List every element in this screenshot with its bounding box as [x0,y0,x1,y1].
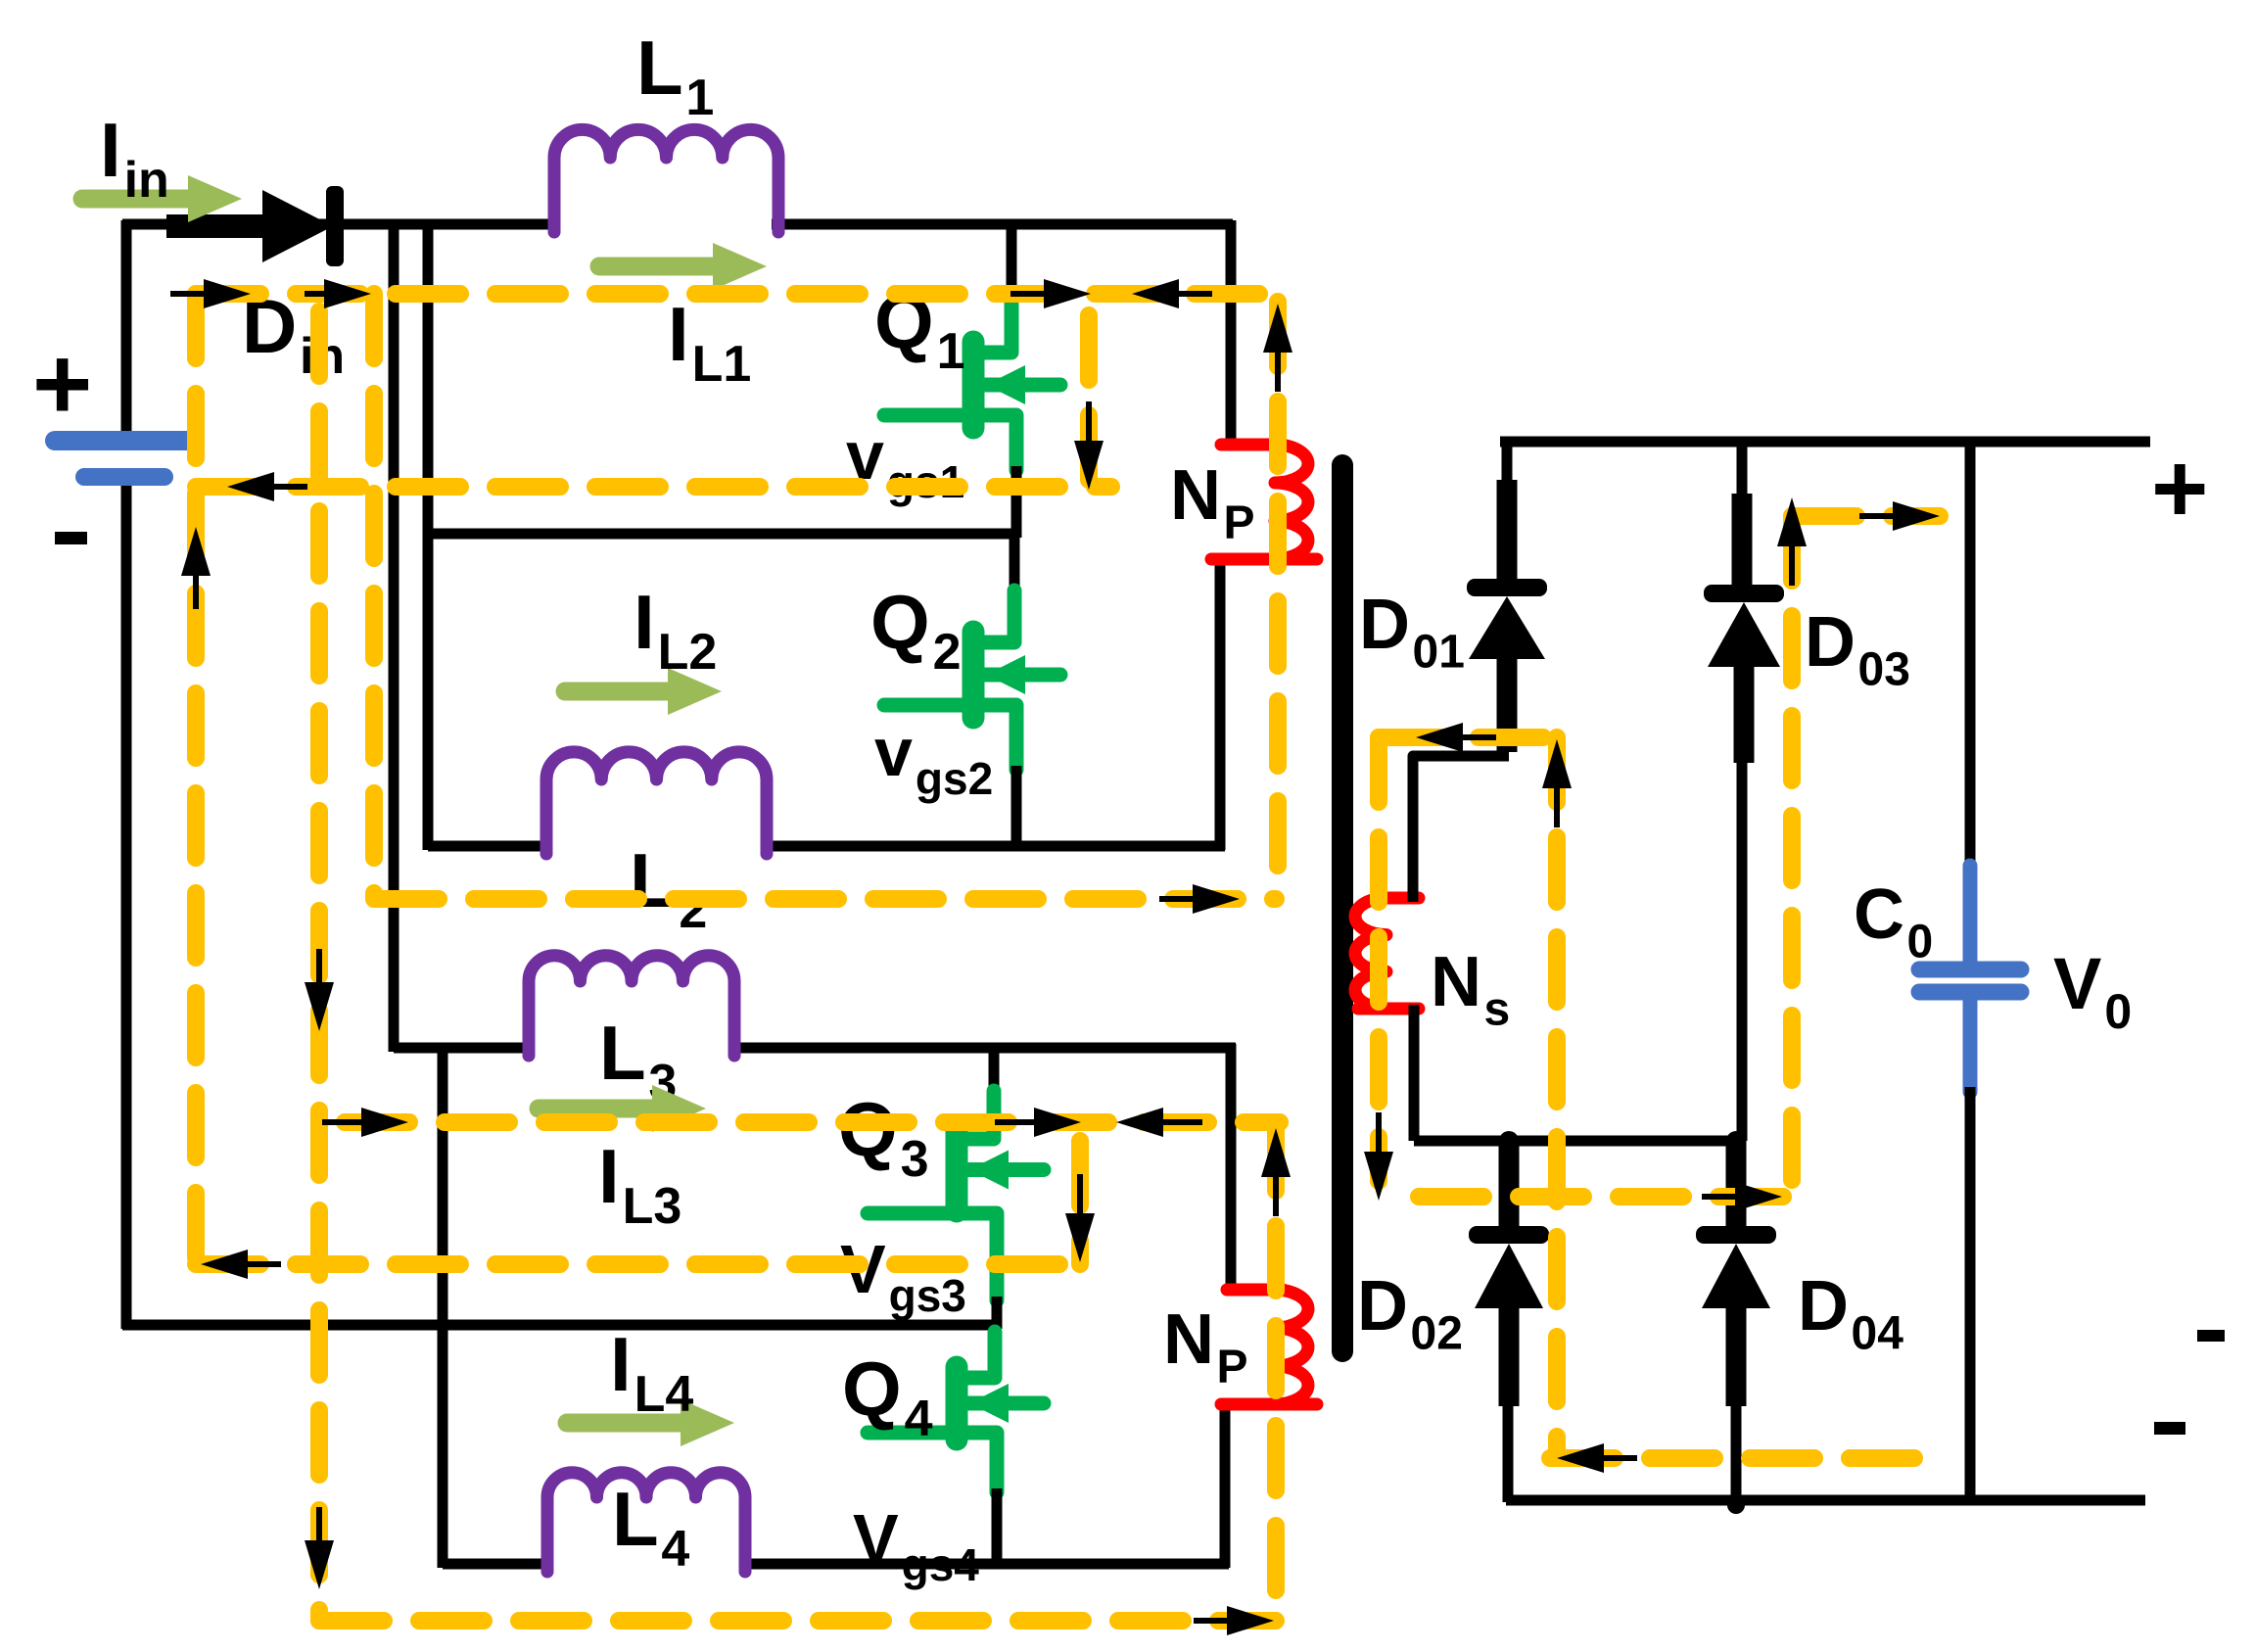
svg-text:L2: L2 [658,624,718,681]
winding Ns bottom lead [1358,1003,1419,1015]
wire battery negative vertical [121,480,132,1329]
winding Ns top lead [1386,892,1419,905]
inductor L3 [529,956,734,1056]
diode Din anode wire [166,214,270,238]
svg-text:L1: L1 [692,336,752,393]
svg-text:N: N [1163,1300,1214,1379]
wire NP1 top vertical [1226,220,1237,447]
svg-text:I: I [634,579,655,665]
diode D01 anode wire [1497,657,1518,752]
diode D03 anode wire [1734,665,1755,763]
svg-text:I: I [610,1321,632,1407]
svg-text:D: D [1805,603,1856,682]
label output minus lower [2154,1422,2185,1435]
svg-text:Q: Q [842,1345,902,1432]
transistor Q2 drain wire [1010,530,1020,595]
arrow lowerH b [1034,1108,1081,1137]
flow path left vertical x326 [310,311,328,1621]
arrow sec D01 left [1416,723,1463,752]
flow path lower H return [196,1255,1087,1273]
winding NP2 [1275,1290,1308,1404]
arrow sec top right [1893,501,1940,531]
label battery minus [55,532,87,544]
flow path H return upper [196,478,1111,496]
flow path NP2 vertical [1267,1126,1285,1621]
svg-text:C: C [1854,875,1904,954]
svg-text:1: 1 [685,70,714,126]
svg-text:N: N [1431,943,1481,1021]
arrow sec top up [1777,497,1807,546]
svg-text:V: V [853,1500,899,1577]
arrow IL3 [539,1100,658,1118]
svg-text:P: P [1224,496,1255,548]
svg-text:4: 4 [905,1391,933,1447]
svg-text:V: V [2053,943,2101,1024]
arrow lowerRet left [201,1250,248,1279]
svg-text:L: L [599,1010,646,1096]
arrow L2loop right [1193,884,1240,914]
winding Ns [1355,898,1386,1009]
wire lower cell top rail [394,1043,531,1054]
transistor Q2 source wire [1011,766,1022,850]
svg-text:L3: L3 [623,1178,682,1235]
svg-text:gs4: gs4 [902,1539,980,1590]
svg-text:gs2: gs2 [916,753,993,804]
diode Din [262,190,333,262]
flow path NP1 vertical [1269,302,1287,899]
svg-text:I: I [668,291,689,377]
wire battery positive vertical [121,220,132,439]
winding NP1 bottom lead [1211,553,1317,566]
svg-text:+: + [2151,434,2208,543]
arrow Hret left [227,472,274,501]
arrow Q3 down [1065,1213,1095,1262]
svg-text:s: s [1484,983,1511,1035]
diode D04 cathode wire [1726,1141,1747,1230]
arrow sec D01D02 up [1542,739,1572,788]
battery V (blue plates) [55,431,189,450]
svg-text:L: L [636,24,683,111]
winding NP2 bottom lead [1221,1398,1317,1411]
wire Ns top vertical [1408,894,1419,902]
wire L2 row [428,841,550,852]
flow path left vertical x200 [187,294,205,1264]
svg-text:02: 02 [1411,1307,1463,1359]
winding NP1 [1275,445,1308,559]
diode D02 cathode wire [1499,1141,1520,1230]
wire NP2 top vertical [1226,1044,1237,1293]
arrow Iin [82,190,194,209]
arrow V326 down b [305,1540,334,1589]
wire output bottom rail [1506,1495,2145,1506]
svg-text:0: 0 [2104,984,2132,1039]
svg-text:4: 4 [661,1521,689,1578]
svg-text:3: 3 [901,1131,929,1188]
transistor Q3 drain wire [989,1044,1000,1095]
arrow NP2 up [1261,1128,1291,1177]
flow path Q1 vertical [1080,315,1098,490]
diode D02 anode wire [1499,1306,1520,1406]
transformer core [1332,465,1353,1351]
svg-text:L: L [630,837,677,923]
flow path sec bottom horizontal [1550,1449,1926,1467]
transistor Q1 [981,299,1011,353]
diode D01 cathode wire [1502,438,1513,484]
svg-text:D: D [1798,1267,1849,1345]
arrow IL4 [567,1414,686,1433]
svg-text:I: I [598,1133,620,1219]
wire lower cell left vertical [438,1044,448,1568]
svg-text:1: 1 [937,323,965,380]
arrow IL2 [565,683,674,701]
arrow H1 b [324,279,371,308]
svg-text:D: D [1357,1267,1408,1345]
arrow sec bottom left [1557,1443,1604,1473]
wire top input rail [122,219,558,230]
arrow NP1 up [1263,304,1292,353]
svg-text:D: D [1359,586,1410,664]
arrow lowerH a [361,1108,408,1137]
label output minus upper [2197,1330,2225,1342]
transistor Q2 [981,590,1014,642]
svg-text:N: N [1170,456,1221,535]
transistor Q1 source wire [1011,466,1022,538]
flow path sec D01 horizontal [1379,729,1557,746]
winding NP1 top lead [1221,439,1283,451]
diode D02 [1469,1226,1549,1244]
flow path sec out top horizontal [1792,507,1940,525]
arrow V326 down a [305,982,334,1031]
capacitor C0 [1963,866,1978,964]
svg-text:L4: L4 [634,1366,694,1423]
inductor L2 [546,752,767,854]
wire node-A vertical to L2 row [423,220,434,850]
diode D04 [1696,1226,1776,1244]
wire output top rail [1500,437,2150,448]
diode D04 anode wire [1726,1306,1747,1406]
winding NP2 top lead [1227,1284,1283,1297]
wire mid row Q1-source [428,529,1014,540]
flow path bottom loop [319,1612,1276,1629]
wire L4 row [443,1559,552,1570]
flow path sec Ns out horizontal [1419,1188,1789,1205]
transistor Q4 drain wire [990,1321,1001,1338]
inductor L4 [547,1473,745,1572]
wire lower mid rail to Q3/Q4 [122,1320,996,1331]
svg-text:2: 2 [933,624,962,681]
node D02 junction [1499,1131,1519,1151]
arrow H1 d [1132,279,1179,308]
transistor Q3 [964,1091,994,1139]
arrow bottom right [1227,1606,1274,1635]
svg-text:v: v [874,714,913,790]
flow path H1 top loop [196,285,1280,303]
svg-text:04: 04 [1852,1307,1904,1359]
svg-text:I: I [100,107,121,193]
transistor Q1 drain wire [1007,220,1017,304]
flow path Q3 vertical [1071,1141,1089,1264]
arrow sec out right [1735,1182,1782,1211]
wire NP1 bottom vertical [1215,555,1226,850]
svg-text:gs3: gs3 [889,1270,966,1321]
svg-text:P: P [1217,1341,1248,1392]
flow path sec D01-D02 vertical [1548,737,1566,1458]
wire Ns bottom vertical [1409,1005,1420,1141]
arrow Q1 down [1074,441,1104,490]
diode D01 [1467,579,1547,596]
transistor Q4 [964,1332,995,1378]
transistor Q3 source wire [992,1297,1003,1329]
diode D03 [1704,585,1784,602]
flow path lower H top [345,1113,1280,1131]
flow path left vertical x382 [365,294,383,899]
svg-text:+: + [32,327,92,442]
diode D03 cathode wire [1737,438,1748,497]
svg-text:L: L [612,1476,659,1562]
node D04 junction [1726,1131,1746,1151]
arrow lowerH c [1116,1108,1163,1137]
flow path sec Ns vertical [1370,737,1387,1181]
wire node-A vertical to lower cell [389,220,399,1052]
wire D01 to Ns top [1413,756,1509,900]
svg-text:0: 0 [1907,916,1934,968]
svg-text:in: in [124,152,169,209]
wire NP2 bottom vertical [1220,1398,1231,1568]
flow path L2 loop bottom [374,890,1276,908]
svg-text:01: 01 [1413,626,1465,678]
svg-text:Q: Q [870,579,930,665]
transistor Q4 source wire [992,1488,1003,1568]
arrow H1 c [1044,279,1091,308]
arrow IL1 [599,258,719,276]
flow path sec out vertical [1783,516,1801,1197]
arrow V200 up [181,527,211,576]
inductor L1 [554,129,778,232]
arrow sec Ns down [1364,1152,1393,1201]
capacitor C0 top wire [1965,438,1976,872]
node D04 bottom junction [1727,1496,1745,1514]
wire Ns bottom row [1414,1136,1740,1147]
arrow H1 a [204,279,251,308]
capacitor C0 bottom wire [1965,1087,1976,1500]
svg-text:03: 03 [1858,643,1910,695]
